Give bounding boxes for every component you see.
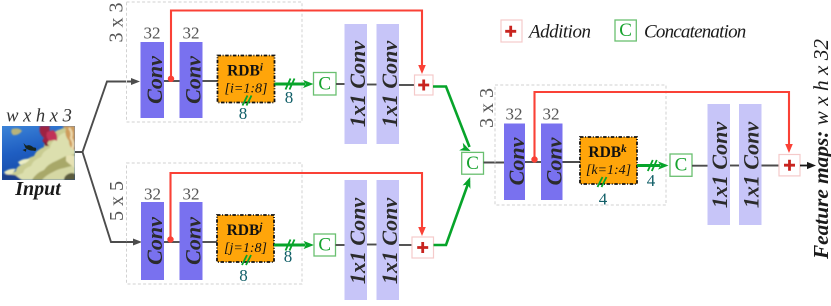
svg-text:w x h x 3: w x h x 3	[6, 107, 72, 127]
1x1 conv P4	[377, 180, 403, 300]
diver	[23, 143, 37, 152]
junction dot (branch1)	[168, 76, 174, 82]
svg-text:C: C	[318, 235, 331, 256]
1x1 conv P2	[377, 24, 403, 144]
arrow into conv C3	[133, 239, 142, 246]
1x1 conv P6	[739, 104, 764, 225]
svg-text:C: C	[466, 153, 479, 174]
svg-text:1x1 Conv: 1x1 Conv	[377, 41, 402, 127]
slash below RDB2	[242, 255, 251, 265]
green arrow RDB1 to concat B1	[275, 83, 306, 86]
svg-text:32: 32	[144, 24, 161, 43]
slash on arrow (branch2)	[286, 240, 295, 251]
central concat box B3	[462, 152, 484, 174]
output arrow	[800, 165, 808, 167]
svg-text:8: 8	[284, 247, 293, 266]
addition box A2	[412, 237, 434, 258]
container branch 2	[127, 163, 303, 284]
svg-text:[j=1:8]: [j=1:8]	[224, 241, 267, 256]
green wire A2 to central concat	[434, 181, 470, 245]
wire C2-RDB1	[203, 80, 218, 82]
svg-text:C: C	[675, 155, 688, 176]
svg-text:1x1 Conv: 1x1 Conv	[707, 122, 732, 208]
slash below RDB1	[243, 96, 252, 106]
conv C6	[541, 124, 567, 201]
green arrow RDB3 to concat B4	[637, 164, 660, 167]
legend concat box	[615, 20, 636, 41]
svg-text:Conv: Conv	[142, 56, 167, 104]
RDB block 1	[218, 56, 275, 103]
svg-text:RDBj: RDBj	[227, 221, 264, 239]
legend addition box	[501, 20, 522, 42]
svg-text:1x1 Conv: 1x1 Conv	[345, 198, 370, 284]
red skip line branch1	[171, 11, 422, 79]
junction dot (branch2)	[167, 236, 173, 242]
svg-text:5 x 5: 5 x 5	[106, 181, 128, 221]
svg-text:1x1 Conv: 1x1 Conv	[739, 122, 764, 208]
wire B2 to 1x1 conv	[336, 244, 345, 246]
svg-text:Input: Input	[14, 178, 62, 200]
wire C4-RDB2	[203, 241, 218, 243]
slash on arrow (subnet3)	[648, 160, 657, 171]
input image	[2, 126, 75, 180]
svg-text:Concatenation: Concatenation	[644, 22, 746, 43]
junction dot (subnet3)	[531, 156, 537, 162]
svg-text:[k=1:4]: [k=1:4]	[586, 163, 631, 178]
wire P3-P4	[367, 244, 377, 246]
conv C2	[180, 42, 206, 118]
red arrowhead into + A3	[785, 144, 793, 153]
wire input fork	[75, 82, 132, 153]
svg-text:4: 4	[647, 171, 656, 190]
wire C5-C6	[525, 161, 541, 163]
svg-text:32: 32	[543, 105, 560, 124]
svg-text:Conv: Conv	[142, 217, 167, 265]
svg-text:Conv: Conv	[181, 56, 206, 104]
1x1 conv P3	[345, 180, 371, 300]
svg-text:32: 32	[144, 185, 161, 204]
concat box B1	[314, 73, 337, 96]
wire B4 to 1x1 conv	[692, 165, 708, 167]
svg-text:8: 8	[239, 266, 248, 285]
concat box B4	[670, 154, 692, 176]
wire P1-P2	[367, 84, 377, 86]
1x1 conv P1	[345, 24, 371, 144]
svg-text:8: 8	[239, 104, 248, 123]
svg-text:Conv: Conv	[181, 217, 206, 265]
svg-text:Addition: Addition	[527, 22, 590, 43]
wire to bottom branch	[83, 152, 134, 242]
green arrow RDB2 to concat B2	[274, 244, 306, 247]
conv C3	[141, 202, 167, 280]
wire C6-RDB3	[563, 161, 581, 163]
wire P2 to + A1	[399, 84, 415, 86]
svg-text:C: C	[619, 20, 632, 41]
red arrowhead into + A2	[418, 227, 426, 236]
svg-text:RDBi: RDBi	[227, 62, 264, 80]
svg-text:3 x 3: 3 x 3	[476, 88, 498, 128]
green wire A1 to central concat	[433, 87, 470, 148]
svg-text:C: C	[318, 74, 331, 95]
wire C1-C2	[164, 80, 180, 82]
wire B1 to 1x1 conv	[336, 83, 345, 85]
1x1 conv P5	[707, 104, 732, 225]
RDB block 3	[580, 137, 637, 184]
conv C5	[504, 124, 529, 201]
wire P5-P6	[730, 165, 739, 167]
conv C4	[180, 202, 206, 280]
addition box A1	[415, 75, 434, 95]
red arrowhead into + A1	[418, 65, 426, 74]
svg-text:4: 4	[599, 190, 608, 209]
svg-text:32: 32	[183, 24, 200, 43]
addition box A3	[779, 155, 800, 176]
red skip line branch2	[171, 173, 423, 240]
svg-text:1x1 Conv: 1x1 Conv	[345, 41, 370, 127]
svg-text:Feature maps: w x h x 32: Feature maps: w x h x 32	[809, 39, 831, 260]
svg-text:[i=1:8]: [i=1:8]	[225, 82, 268, 97]
container branch 1	[127, 2, 303, 122]
wire C3-C4	[164, 241, 180, 243]
container subnet 3	[495, 85, 666, 205]
wire P4 to + A2	[399, 244, 412, 246]
slash on arrow (branch1)	[286, 79, 295, 90]
wire P6 to + A3	[762, 165, 780, 167]
svg-text:3 x 3: 3 x 3	[106, 3, 128, 43]
concat box B2	[314, 234, 336, 256]
svg-text:1x1 Conv: 1x1 Conv	[377, 198, 402, 284]
slash below RDB3	[598, 177, 607, 187]
svg-text:32: 32	[506, 105, 523, 124]
svg-text:32: 32	[183, 185, 200, 204]
svg-text:8: 8	[285, 88, 294, 107]
RDB block 2	[217, 215, 274, 262]
arrow into conv C1	[131, 78, 140, 85]
conv C1	[141, 42, 168, 118]
red skip line subnet3	[535, 92, 790, 160]
wire B3 to subnet3	[484, 162, 505, 164]
